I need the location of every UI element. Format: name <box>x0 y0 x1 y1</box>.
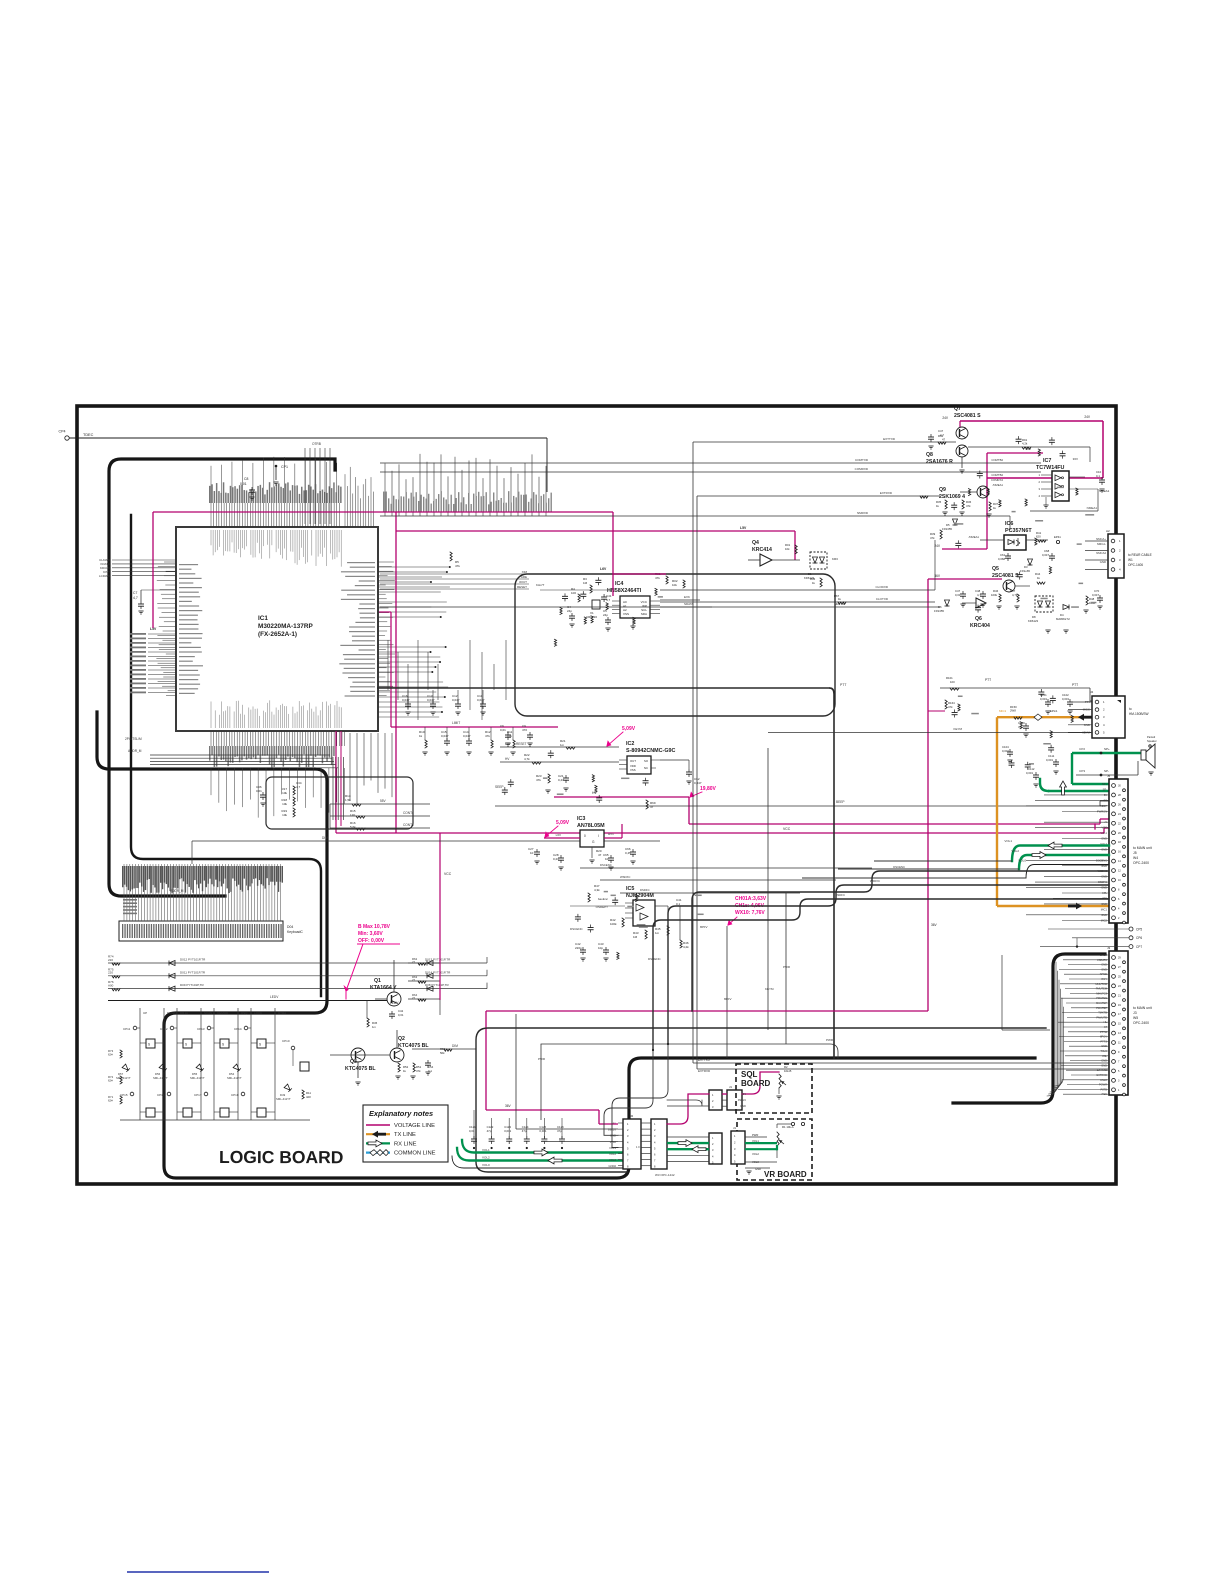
svg-text:0: 0 <box>584 834 586 838</box>
svg-text:KEYM: KEYM <box>765 987 774 991</box>
svg-text:2: 2 <box>1039 480 1041 484</box>
svg-text:LIMIT: LIMIT <box>452 721 460 725</box>
wire EXTTXD top <box>693 441 956 443</box>
wire bundle above IC1 left <box>305 448 330 524</box>
svg-text:DSCENC: DSCENC <box>600 863 612 867</box>
svg-text:SML-411YT: SML-411YT <box>276 1097 291 1101</box>
svg-text:2W8: 2W8 <box>1010 709 1016 713</box>
rx wire SP+ <box>1072 752 1141 754</box>
svg-text:CH01A:3,63V: CH01A:3,63V <box>735 896 767 902</box>
svg-text:J1: J1 <box>733 1126 736 1130</box>
svg-text:to: to <box>1129 707 1132 711</box>
svg-text:S-80942CNMC-G9C: S-80942CNMC-G9C <box>626 748 676 754</box>
svg-text:620: 620 <box>1036 535 1041 539</box>
svg-text:Q8: Q8 <box>926 452 933 458</box>
svg-text:J3: J3 <box>1133 1011 1137 1015</box>
voltage wire R164 tap <box>928 710 945 712</box>
svg-text:D09 PYT101P,TR: D09 PYT101P,TR <box>180 983 204 987</box>
svg-text:47: 47 <box>598 853 602 857</box>
svg-text:VOL1: VOL1 <box>1100 831 1107 835</box>
svg-text:CP6: CP6 <box>1136 936 1142 940</box>
svg-text:L5V: L5V <box>740 526 747 530</box>
svg-text:J3: J3 <box>1107 946 1111 950</box>
wire PTT right <box>940 687 1090 689</box>
svg-text:S: S <box>148 1043 150 1047</box>
svg-text:B Max 10,78V: B Max 10,78V <box>358 924 391 930</box>
diode D6 <box>945 600 950 606</box>
svg-text:1SS355: 1SS355 <box>942 527 952 531</box>
diode D4 <box>1063 605 1069 610</box>
svg-text:5,09V: 5,09V <box>622 726 636 732</box>
svg-text:KTC4075 BL: KTC4075 BL <box>345 1066 376 1072</box>
filler components upper right <box>951 436 1096 612</box>
svg-text:0,047: 0,047 <box>402 698 410 702</box>
IC1 pin labels bottom (inner) <box>211 700 341 728</box>
svg-text:PWR: PWR <box>826 1038 834 1042</box>
svg-text:EXTTXD: EXTTXD <box>883 437 896 441</box>
wire GND2 down <box>541 1140 618 1142</box>
svg-text:D04: D04 <box>287 925 293 929</box>
wire EXTRXD top <box>697 495 940 497</box>
wire W5DXC staircase <box>668 885 1109 1044</box>
svg-text:S: S <box>222 1043 224 1047</box>
svg-text:Q5: Q5 <box>992 566 999 572</box>
svg-text:1k: 1k <box>403 1069 407 1073</box>
connector W3 plug A <box>651 1119 667 1169</box>
svg-text:36V: 36V <box>505 1104 512 1108</box>
svg-text:MIC1: MIC1 <box>999 709 1006 713</box>
IC1 pin stubs top right group <box>345 467 374 527</box>
svg-text:36V: 36V <box>741 1092 746 1096</box>
svg-text:62#: 62# <box>108 1079 113 1083</box>
wire bundle below IC1 right <box>388 640 506 720</box>
svg-text:IC2: IC2 <box>626 741 634 747</box>
svg-text:J5: J5 <box>1107 774 1111 778</box>
svg-text:CP1: CP1 <box>281 465 288 469</box>
svg-text:NMTXD: NMTXD <box>834 602 845 606</box>
svg-text:I: I <box>598 834 599 838</box>
svg-text:10k: 10k <box>785 547 790 551</box>
wire LEDV <box>108 1000 387 1002</box>
svg-text:SDATA: SDATA <box>684 602 694 606</box>
svg-text:VOL2: VOL2 <box>609 1152 616 1156</box>
svg-text:OPC-1406: OPC-1406 <box>1128 563 1143 567</box>
node KDATA bus labels <box>112 559 176 561</box>
svg-text:56k: 56k <box>440 1051 445 1055</box>
wire DSDFC staircase <box>653 899 1109 1050</box>
svg-text:CONTx: CONTx <box>403 811 414 815</box>
svg-text:Q9: Q9 <box>939 487 946 493</box>
svg-text:2SC4081 S: 2SC4081 S <box>954 413 981 419</box>
svg-text:0,001: 0,001 <box>1040 697 1047 701</box>
svg-text:NMCA+: NMCA+ <box>1096 537 1106 541</box>
svg-text:0,047: 0,047 <box>477 698 485 702</box>
voltage wire VCC long rail <box>336 832 1104 834</box>
svg-text:VOL1: VOL1 <box>1004 839 1012 843</box>
rx wire VOL1 <box>1012 846 1109 862</box>
svg-text:SEEP: SEEP <box>495 785 504 789</box>
voltage wire LIMIT row <box>391 726 558 728</box>
svg-text:DSQ: DSQ <box>241 1011 248 1015</box>
wire BEEP <box>495 805 1100 807</box>
svg-text:1k: 1k <box>993 506 997 510</box>
svg-text:W5DXC: W5DXC <box>870 879 880 883</box>
svg-text:24p: 24p <box>603 613 608 617</box>
svg-text:XIM: XIM <box>522 570 528 574</box>
wire EXTTXD vertical <box>692 442 694 1063</box>
voltage wire HV rail <box>554 796 689 798</box>
svg-text:TDEC: TDEC <box>83 433 94 437</box>
rx wire VOL1 into VR <box>745 1142 777 1144</box>
svg-text:3OUT: 3OUT <box>519 580 527 584</box>
svg-text:SQL: SQL <box>741 1070 758 1079</box>
svg-text:10k: 10k <box>672 583 677 587</box>
connector W3 plug B <box>709 1133 722 1164</box>
svg-text:VOL0: VOL0 <box>482 1163 490 1167</box>
wire staircase into J2 <box>604 1050 653 1135</box>
svg-text:IC3: IC3 <box>577 816 585 822</box>
svg-text:0,047: 0,047 <box>1042 553 1049 557</box>
svg-text:COMTB2: COMTB2 <box>991 458 1003 462</box>
svg-text:COMTXD: COMTXD <box>855 458 869 462</box>
svg-text:KR3: KR3 <box>832 557 838 561</box>
wire J3 riser <box>1001 955 1003 1030</box>
rx wire SP+ riser <box>1071 753 1073 784</box>
wire WSDXC left run <box>600 879 836 881</box>
svg-text:8PFV: 8PFV <box>724 997 732 1001</box>
components on MIC line <box>1014 717 1022 719</box>
diode matrix rows D012-D08 <box>108 962 487 964</box>
svg-text:PTT: PTT <box>840 683 846 687</box>
dashed diode pack KR3 <box>810 552 827 569</box>
svg-text:CHMOD: CHMOD <box>217 1011 229 1015</box>
svg-text:CP17: CP17 <box>194 1093 202 1097</box>
svg-text:CLOTXD: CLOTXD <box>876 597 889 601</box>
connector A2 <box>1108 534 1124 578</box>
svg-text:HM-150B/SW: HM-150B/SW <box>1129 712 1148 716</box>
resistor R36b <box>820 578 822 587</box>
svg-text:OPC-2400: OPC-2400 <box>1133 861 1149 865</box>
test point CP1 <box>275 465 278 468</box>
junction dots J2 area <box>652 1049 654 1051</box>
tx wire MIC riser <box>996 717 998 906</box>
resistors R62-R64 <box>408 962 440 964</box>
tx wire MIC to J4 <box>997 716 1092 718</box>
svg-text:NMEA1: NMEA1 <box>1099 489 1110 493</box>
rx wire VOL2 link <box>667 1148 709 1150</box>
filler components IC5 area <box>575 891 704 959</box>
bus wire chainA (around keyboard to bottom) <box>97 712 1035 1178</box>
svg-text:LCDWR: LCDWR <box>99 574 111 578</box>
svg-text:3: 3 <box>1039 487 1041 491</box>
svg-text:2P/GTSL/M: 2P/GTSL/M <box>125 737 142 741</box>
svg-text:PWR: PWR <box>752 1133 758 1137</box>
svg-text:PWR: PWR <box>610 1140 616 1144</box>
svg-text:SML-411YT: SML-411YT <box>153 1076 168 1080</box>
svg-text:D012 PYT101P,TR: D012 PYT101P,TR <box>180 958 206 962</box>
legend explanatory notes <box>363 1105 448 1162</box>
svg-text:0,01: 0,01 <box>500 728 506 732</box>
svg-text:BEEP: BEEP <box>836 800 845 804</box>
voltage wire 24V right drop <box>1102 421 1104 478</box>
svg-text:VOL1: VOL1 <box>482 1148 490 1152</box>
test points CP5 CP6 CP7 <box>1129 927 1133 931</box>
svg-text:0,068: 0,068 <box>998 557 1005 561</box>
svg-text:DSCENC: DSCENC <box>570 927 584 931</box>
wires XIM ARE RESET <box>380 573 529 575</box>
svg-text:SP+: SP+ <box>1104 747 1110 751</box>
svg-text:KTA1664 Y: KTA1664 Y <box>370 985 397 991</box>
connector J3 <box>1109 951 1128 1095</box>
svg-text:BOARD: BOARD <box>741 1079 771 1088</box>
components around Q9 <box>945 500 947 509</box>
svg-text:TC7W14FU: TC7W14FU <box>1036 465 1065 471</box>
wire 9SELV <box>515 1014 517 1129</box>
test point CP4 <box>65 436 69 440</box>
svg-text:KRC404: KRC404 <box>970 623 990 629</box>
svg-text:VSS: VSS <box>630 768 636 772</box>
voltage wire 24V top <box>960 420 1103 422</box>
svg-text:DR1A: DR1A <box>180 1011 188 1015</box>
svg-text:CP4: CP4 <box>59 430 66 434</box>
svg-text:IC6: IC6 <box>1005 521 1013 527</box>
wires IC4 SDATA EXK <box>660 599 700 601</box>
connector J4 <box>1092 696 1125 738</box>
wire PWR long <box>541 1044 838 1058</box>
svg-text:62#: 62# <box>108 1099 113 1103</box>
svg-text:1m: 1m <box>560 743 565 747</box>
svg-text:Q1: Q1 <box>374 978 381 984</box>
J3 fan collector bundle <box>1047 962 1056 1096</box>
svg-text:47p: 47p <box>522 1129 527 1133</box>
svg-text:WSDXC: WSDXC <box>620 875 630 879</box>
svg-text:RESET: RESET <box>516 742 527 746</box>
svg-text:CP12: CP12 <box>160 1027 168 1031</box>
svg-text:J5: J5 <box>1133 851 1137 855</box>
rx wire VOL2 <box>1019 855 1109 869</box>
voltage wire L5V top rect <box>153 511 396 513</box>
resistor R39 <box>940 530 942 539</box>
wire COMTXD <box>380 462 1041 464</box>
svg-text:1 0: 1 0 <box>636 1145 640 1149</box>
wire PTT horizontal <box>377 687 830 689</box>
svg-text:D08 PYT101P,TR: D08 PYT101P,TR <box>425 983 449 987</box>
svg-text:W1: W1 <box>1128 558 1133 562</box>
svg-text:AN78L05M: AN78L05M <box>577 823 605 829</box>
svg-text:1k: 1k <box>419 734 423 738</box>
svg-text:1m: 1m <box>655 931 660 935</box>
connector SQL link <box>709 1090 722 1110</box>
voltage wire 36V riser down <box>927 579 929 1011</box>
svg-text:1k: 1k <box>838 597 842 601</box>
svg-text:Q4: Q4 <box>752 540 759 546</box>
svg-text:1: 1 <box>1039 473 1041 477</box>
svg-text:19,80V: 19,80V <box>700 786 717 792</box>
voltage wire L5V left drop <box>152 512 154 628</box>
svg-text:0,047: 0,047 <box>463 734 471 738</box>
IC1 pin stubs right (outer) <box>378 562 395 695</box>
svg-text:220: 220 <box>108 958 113 962</box>
connector D04 keyboard <box>119 921 283 941</box>
svg-text:C7: C7 <box>133 591 137 595</box>
wires W3 A to B <box>667 1136 709 1138</box>
svg-text:DSCENC: DSCENC <box>893 865 905 869</box>
svg-text:0,001: 0,001 <box>1026 771 1033 775</box>
svg-text:100: 100 <box>950 680 955 684</box>
svg-text:DTRA: DTRA <box>278 1011 286 1015</box>
svg-text:M30220MA-137RP: M30220MA-137RP <box>258 623 313 630</box>
svg-text:GND: GND <box>740 1104 746 1108</box>
svg-text:Q6: Q6 <box>975 616 982 622</box>
svg-text:EP41: EP41 <box>1054 535 1061 539</box>
svg-text:KHz/T: KHz/T <box>536 583 545 587</box>
svg-text:SP+: SP+ <box>1102 782 1107 786</box>
svg-text:47k: 47k <box>455 564 460 568</box>
svg-text:DIM: DIM <box>452 1044 458 1048</box>
svg-text:220p: 220p <box>575 946 582 950</box>
svg-text:CP2: CP2 <box>1079 747 1085 751</box>
svg-text:CLODXD: CLODXD <box>875 585 888 589</box>
svg-text:A2: A2 <box>1106 529 1110 533</box>
voltage wire VCC drop to Q1 <box>439 833 441 1000</box>
wire PTT vertical <box>830 688 834 1058</box>
resistor R01 at Q4 <box>795 545 797 554</box>
svg-text:ARE: ARE <box>521 575 527 579</box>
diode D5 <box>953 519 958 525</box>
svg-text:47k: 47k <box>930 536 935 540</box>
svg-text:1SS355: 1SS355 <box>934 609 944 613</box>
svg-text:4,7: 4,7 <box>133 596 138 600</box>
wire EXTTXD bottom <box>693 1062 1109 1064</box>
wire VOL0 bottom <box>452 1156 623 1168</box>
wire 8PFV drop <box>726 926 728 1058</box>
svg-text:0,01: 0,01 <box>256 789 262 793</box>
svg-text:L6V: L6V <box>505 742 512 746</box>
svg-text:9SELV: 9SELV <box>738 1098 746 1102</box>
svg-text:KEYM: KEYM <box>953 727 962 731</box>
svg-text:PWR: PWR <box>538 1057 546 1061</box>
svg-text:4,3k: 4,3k <box>594 888 600 892</box>
svg-text:A00: A00 <box>108 983 114 987</box>
svg-text:DOWN: DOWN <box>167 1011 177 1015</box>
svg-text:NMCA2: NMCA2 <box>1096 551 1106 555</box>
svg-text:Min: 3,60V: Min: 3,60V <box>358 931 383 937</box>
svg-text:1m: 1m <box>372 1025 377 1029</box>
svg-text:J4: J4 <box>1090 690 1094 694</box>
wire KEYM horizontal <box>768 732 1085 734</box>
svg-text:COMRX2: COMRX2 <box>991 478 1003 482</box>
svg-text:D013 PYT101P,TR: D013 PYT101P,TR <box>425 958 451 962</box>
svg-text:47: 47 <box>942 438 946 442</box>
switch matrix S1-S8 <box>139 1008 141 1120</box>
svg-text:4,7k: 4,7k <box>524 757 530 761</box>
svg-text:0,001: 0,001 <box>539 1129 546 1133</box>
svg-text:VR BOARD: VR BOARD <box>764 1170 807 1179</box>
svg-text:LOGIC BOARD: LOGIC BOARD <box>219 1147 343 1167</box>
board SQL BOARD <box>736 1064 812 1113</box>
svg-text:0,047: 0,047 <box>452 698 460 702</box>
svg-text:Explanatory notes: Explanatory notes <box>369 1109 433 1118</box>
wire VOL0 return <box>802 877 1026 879</box>
svg-text:W3 OPC-1442: W3 OPC-1442 <box>655 1173 675 1177</box>
svg-text:Q7: Q7 <box>954 406 961 412</box>
rx wire VOL2 bottom <box>457 1148 623 1161</box>
svg-text:GND2: GND2 <box>609 1164 617 1168</box>
svg-text:to MAIN unit: to MAIN unit <box>1133 846 1152 850</box>
svg-text:100k: 100k <box>610 922 617 926</box>
svg-text:0,047: 0,047 <box>427 698 435 702</box>
svg-text:S: S <box>259 1043 261 1047</box>
svg-text:GND: GND <box>1100 560 1106 564</box>
svg-text:EXTRXD: EXTRXD <box>880 491 893 495</box>
svg-text:MA8062 M: MA8062 M <box>1056 617 1070 621</box>
svg-text:S: S <box>185 1043 187 1047</box>
svg-text:47p: 47p <box>557 1129 562 1133</box>
svg-text:SML-411YT: SML-411YT <box>190 1076 205 1080</box>
svg-text:27: 27 <box>412 996 416 1000</box>
wire COMRXD <box>380 471 1041 473</box>
svg-text:SP-: SP- <box>1103 787 1107 791</box>
svg-text:KRC414: KRC414 <box>752 547 772 553</box>
wire EXTRXD bottom <box>697 1068 1109 1070</box>
svg-text:24V: 24V <box>942 416 949 420</box>
svg-text:0,047: 0,047 <box>1092 593 1099 597</box>
svg-text:C8: C8 <box>244 477 248 481</box>
IC IC1 M30220MA-137RP body <box>176 527 378 731</box>
voltage wire SQL 36V <box>599 1123 618 1125</box>
svg-text:KTC4075 BL: KTC4075 BL <box>398 1043 429 1049</box>
svg-text:36V: 36V <box>931 923 938 927</box>
svg-text:Q2: Q2 <box>398 1036 405 1042</box>
enclosure CONT box <box>266 777 413 829</box>
rx arrow SP <box>1060 781 1067 795</box>
svg-text:to REAR CABLE: to REAR CABLE <box>1128 553 1152 557</box>
svg-text:100: 100 <box>571 591 576 595</box>
svg-text:470: 470 <box>522 728 527 732</box>
svg-text:SP-: SP- <box>1104 769 1109 773</box>
svg-text:24V: 24V <box>1084 415 1091 419</box>
svg-text:CP5: CP5 <box>1136 927 1142 931</box>
svg-text:L6V: L6V <box>556 833 561 837</box>
svg-text:Pantod: Pantod <box>1147 735 1156 739</box>
svg-text:VCC: VCC <box>783 827 791 831</box>
wire VOL1 return <box>874 860 1012 862</box>
svg-text:47k: 47k <box>536 778 541 782</box>
svg-text:47: 47 <box>650 805 654 809</box>
svg-text:D014 PYT101P,TR: D014 PYT101P,TR <box>425 970 451 974</box>
svg-text:OSDEPT: OSDEPT <box>596 905 609 909</box>
svg-text:DSDENC: DSDENC <box>648 957 662 961</box>
svg-text:HV: HV <box>505 757 510 761</box>
svg-text:W4: W4 <box>1133 856 1138 860</box>
svg-text:GND: GND <box>755 1167 761 1171</box>
svg-text:D011 PYT101P,TR: D011 PYT101P,TR <box>180 970 206 974</box>
svg-text:8PFV: 8PFV <box>700 925 708 929</box>
svg-text:10k: 10k <box>282 791 287 795</box>
svg-text:MIC1: MIC1 <box>1101 907 1108 911</box>
svg-text:42#: 42# <box>306 1095 311 1099</box>
svg-text:10: 10 <box>530 851 534 855</box>
wire TDEC <box>69 437 547 439</box>
svg-text:0,01: 0,01 <box>398 1013 404 1017</box>
svg-text:CP13: CP13 <box>197 1027 205 1031</box>
rx wire VOL2 into VR <box>745 1148 777 1150</box>
svg-text:4,7: 4,7 <box>606 598 611 602</box>
svg-text:PTT: PTT <box>985 678 991 682</box>
wire VOL0 <box>1026 865 1109 879</box>
svg-text:NMCA-: NMCA- <box>1097 542 1106 546</box>
wire CLOTXD <box>660 601 935 603</box>
